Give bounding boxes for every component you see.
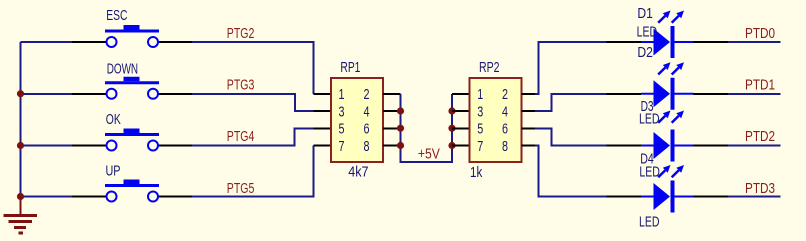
wire: RP2 pin2 to LED D1 row [535,42,607,94]
pin stub: LED D3 right pin [694,145,729,147]
pin stub: RP1 left [314,145,332,147]
pin stub: button S2 right pin [158,93,192,95]
wire net PTG2 [192,42,314,94]
junction: ground rail [17,142,24,149]
pin stub: LED D4 left pin [607,196,642,198]
pin stub: RP2 left [452,145,470,147]
pin stub: RP1 right [383,110,401,112]
value label "LED" (D1) [637,23,658,40]
svg-text:LED: LED [637,23,658,40]
label "RP1" [340,59,360,76]
svg-text:2: 2 [364,86,370,103]
svg-text:PTG2: PTG2 [227,25,255,42]
junction: ground rail [17,193,24,200]
pin stub: RP2 right [522,110,536,112]
wire net PTG4 [192,128,314,145]
value label "LED" (D3) [639,111,660,128]
wire: left ground rail vertical [20,42,22,197]
RP1 pin number 1 [339,86,345,103]
wire: rail to button S4 [21,196,73,198]
designator label "D4" [640,151,654,168]
wire net PTD1 [728,93,781,95]
net label PTG5 [227,180,255,197]
svg-text:5: 5 [339,121,345,138]
RP1 pin number 7 [339,138,345,155]
svg-text:8: 8 [502,138,508,155]
push button OK [105,129,159,151]
svg-text:LED: LED [639,214,660,231]
RP1 pin number 5 [339,121,345,138]
pin stub: LED D4 right pin [694,196,729,198]
wire: RP2 pin8 to LED D4 row [535,146,607,197]
designator label "D2" [637,44,653,61]
RP2 pin number 4 [502,104,508,121]
svg-text:3: 3 [477,104,483,121]
label "OK" [106,111,121,128]
RP1 pin number 6 [364,121,370,138]
RP1 pin number 4 [364,104,370,121]
RP1 pin number 3 [339,104,345,121]
svg-text:7: 7 [477,138,483,155]
svg-text:1: 1 [339,86,345,103]
svg-text:4k7: 4k7 [348,163,368,180]
pin stub: RP2 right [522,93,536,95]
pin stub: button S2 left pin [72,93,107,95]
push button ESC [105,25,159,47]
push button DOWN [105,77,159,99]
RP2 pin number 1 [477,86,483,103]
svg-text:1: 1 [477,86,483,103]
label "DOWN" [107,61,138,78]
RP2 pin number 5 [477,121,483,138]
RP2 pin number 7 [477,138,483,155]
svg-text:DOWN: DOWN [107,61,138,78]
svg-text:+5V: +5V [418,146,441,163]
pin stub: button S3 right pin [158,145,192,147]
label "RP2" [479,59,500,76]
junction: RP2 +5V bus [448,107,455,114]
net label PTD1 [745,77,775,94]
RP1 pin number 2 [364,86,370,103]
power net label +5V [418,146,441,163]
junction: RP1 +5V bus [397,125,404,132]
svg-text:UP: UP [106,163,121,180]
value label "LED" (D2, moved) [639,214,660,231]
wire net PTG3 [192,94,314,111]
junction: RP2 +5V bus [448,125,455,132]
pin stub: LED D2 right pin [694,93,729,95]
value label "LED" (D4) [639,164,660,181]
svg-text:RP1: RP1 [340,59,360,76]
junction: RP1 +5V bus [397,107,404,114]
RP2 pin number 3 [477,104,483,121]
svg-text:LED: LED [639,164,660,181]
pin stub: RP1 right [383,93,401,95]
pin stub: RP2 left [452,127,470,129]
designator label "D3" [641,98,654,115]
svg-text:PTG3: PTG3 [227,77,255,94]
LED D4 [641,165,694,213]
junction: ground rail [17,90,24,97]
resistor pack RP2 [470,78,522,162]
pin stub: LED D2 left pin [607,93,642,95]
svg-text:D1: D1 [637,5,653,22]
pin stub: button S1 left pin [72,41,107,43]
push button UP [105,180,159,202]
pin stub: button S4 right pin [158,196,192,198]
pin stub: RP1 left [314,127,332,129]
pin stub: RP1 left [314,110,332,112]
svg-text:4: 4 [364,104,370,121]
pin stub: button S3 left pin [72,145,107,147]
wire: rail to button S1 [21,41,73,43]
pin stub: LED D1 left pin [607,41,642,43]
RP2 pin number 8 [502,138,508,155]
LED D3 [641,111,694,162]
svg-text:PTD1: PTD1 [745,77,775,94]
svg-text:ESC: ESC [106,7,127,24]
label "ESC" [106,7,127,24]
label "UP" [106,163,121,180]
wire net +5V bus [401,94,453,162]
svg-text:D2: D2 [637,44,653,61]
svg-text:1k: 1k [470,164,483,181]
wire net PTG5 [192,146,314,197]
wire: RP2 pin6 to LED D3 row [535,128,607,145]
LED D1 [641,11,694,59]
svg-text:PTD0: PTD0 [745,25,775,42]
svg-text:PTG4: PTG4 [227,128,255,145]
pin stub: RP2 right [522,127,536,129]
wire: RP2 pin4 to LED D2 row [535,94,607,111]
value label "4k7" [348,163,368,180]
svg-text:PTG5: PTG5 [227,180,255,197]
svg-text:8: 8 [364,138,370,155]
svg-text:7: 7 [339,138,345,155]
pin stub: RP2 right [522,145,536,147]
pin stub: RP2 left [452,93,470,95]
wire net PTD3 [728,196,781,198]
svg-text:4: 4 [502,104,508,121]
pin stub: LED D1 right pin [694,41,729,43]
svg-text:RP2: RP2 [479,59,500,76]
svg-text:5: 5 [477,121,483,138]
svg-text:3: 3 [339,104,345,121]
wire: rail to button S2 [21,93,73,95]
net label PTD0 [745,25,775,42]
pin stub: button S1 right pin [158,41,192,43]
pin stub: LED D3 left pin [607,145,642,147]
wire: rail to button S3 [21,145,73,147]
svg-text:6: 6 [364,121,370,138]
ground [3,197,37,234]
net label PTG4 [227,128,255,145]
net label PTG2 [227,25,255,42]
svg-text:PTD2: PTD2 [745,128,775,145]
pin stub: RP2 left [452,110,470,112]
RP2 pin number 6 [502,121,508,138]
svg-text:PTD3: PTD3 [745,180,775,197]
pin stub: RP1 right [383,127,401,129]
svg-text:LED: LED [639,111,660,128]
pin stub: RP1 right [383,145,401,147]
net label PTD3 [745,180,775,197]
wire net PTD0 [728,41,781,43]
resistor pack RP1 [331,78,383,162]
designator label "D1" [637,5,653,22]
svg-text:6: 6 [502,121,508,138]
pin stub: button S4 left pin [72,196,107,198]
svg-text:OK: OK [106,111,121,128]
RP2 pin number 2 [502,86,508,103]
LED D2 [641,62,694,110]
value label "1k" [470,164,483,181]
net label PTG3 [227,77,255,94]
RP1 pin number 8 [364,138,370,155]
svg-text:2: 2 [502,86,508,103]
junction: RP2 +5V bus [448,142,455,149]
wire net PTD2 [728,145,781,147]
net label PTD2 [745,128,775,145]
pin stub: RP1 left [314,93,332,95]
junction: RP1 +5V bus [397,142,404,149]
